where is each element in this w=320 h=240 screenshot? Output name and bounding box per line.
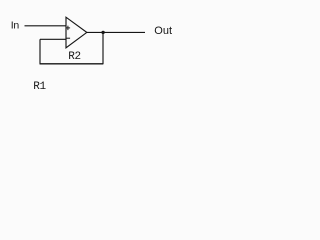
- wire feedback bottom horizontal: [40, 63, 104, 65]
- wire feedback right vertical: [102, 32, 104, 64]
- svg-text:Out: Out: [154, 25, 172, 37]
- wire op-amp output to Out: [87, 31, 145, 33]
- wire In to op-amp + input: [25, 25, 67, 27]
- svg-text:R2: R2: [68, 51, 81, 63]
- wire feedback to minus input: [40, 38, 66, 40]
- op-amp U1 triangle: [66, 17, 87, 48]
- junction node dot: [101, 31, 104, 34]
- wire feedback left vertical: [39, 39, 41, 64]
- op-amp plus input marker: [66, 26, 70, 30]
- svg-text:R1: R1: [33, 81, 46, 93]
- svg-text:In: In: [11, 19, 20, 31]
- op-amp minus input marker: [66, 37, 70, 39]
